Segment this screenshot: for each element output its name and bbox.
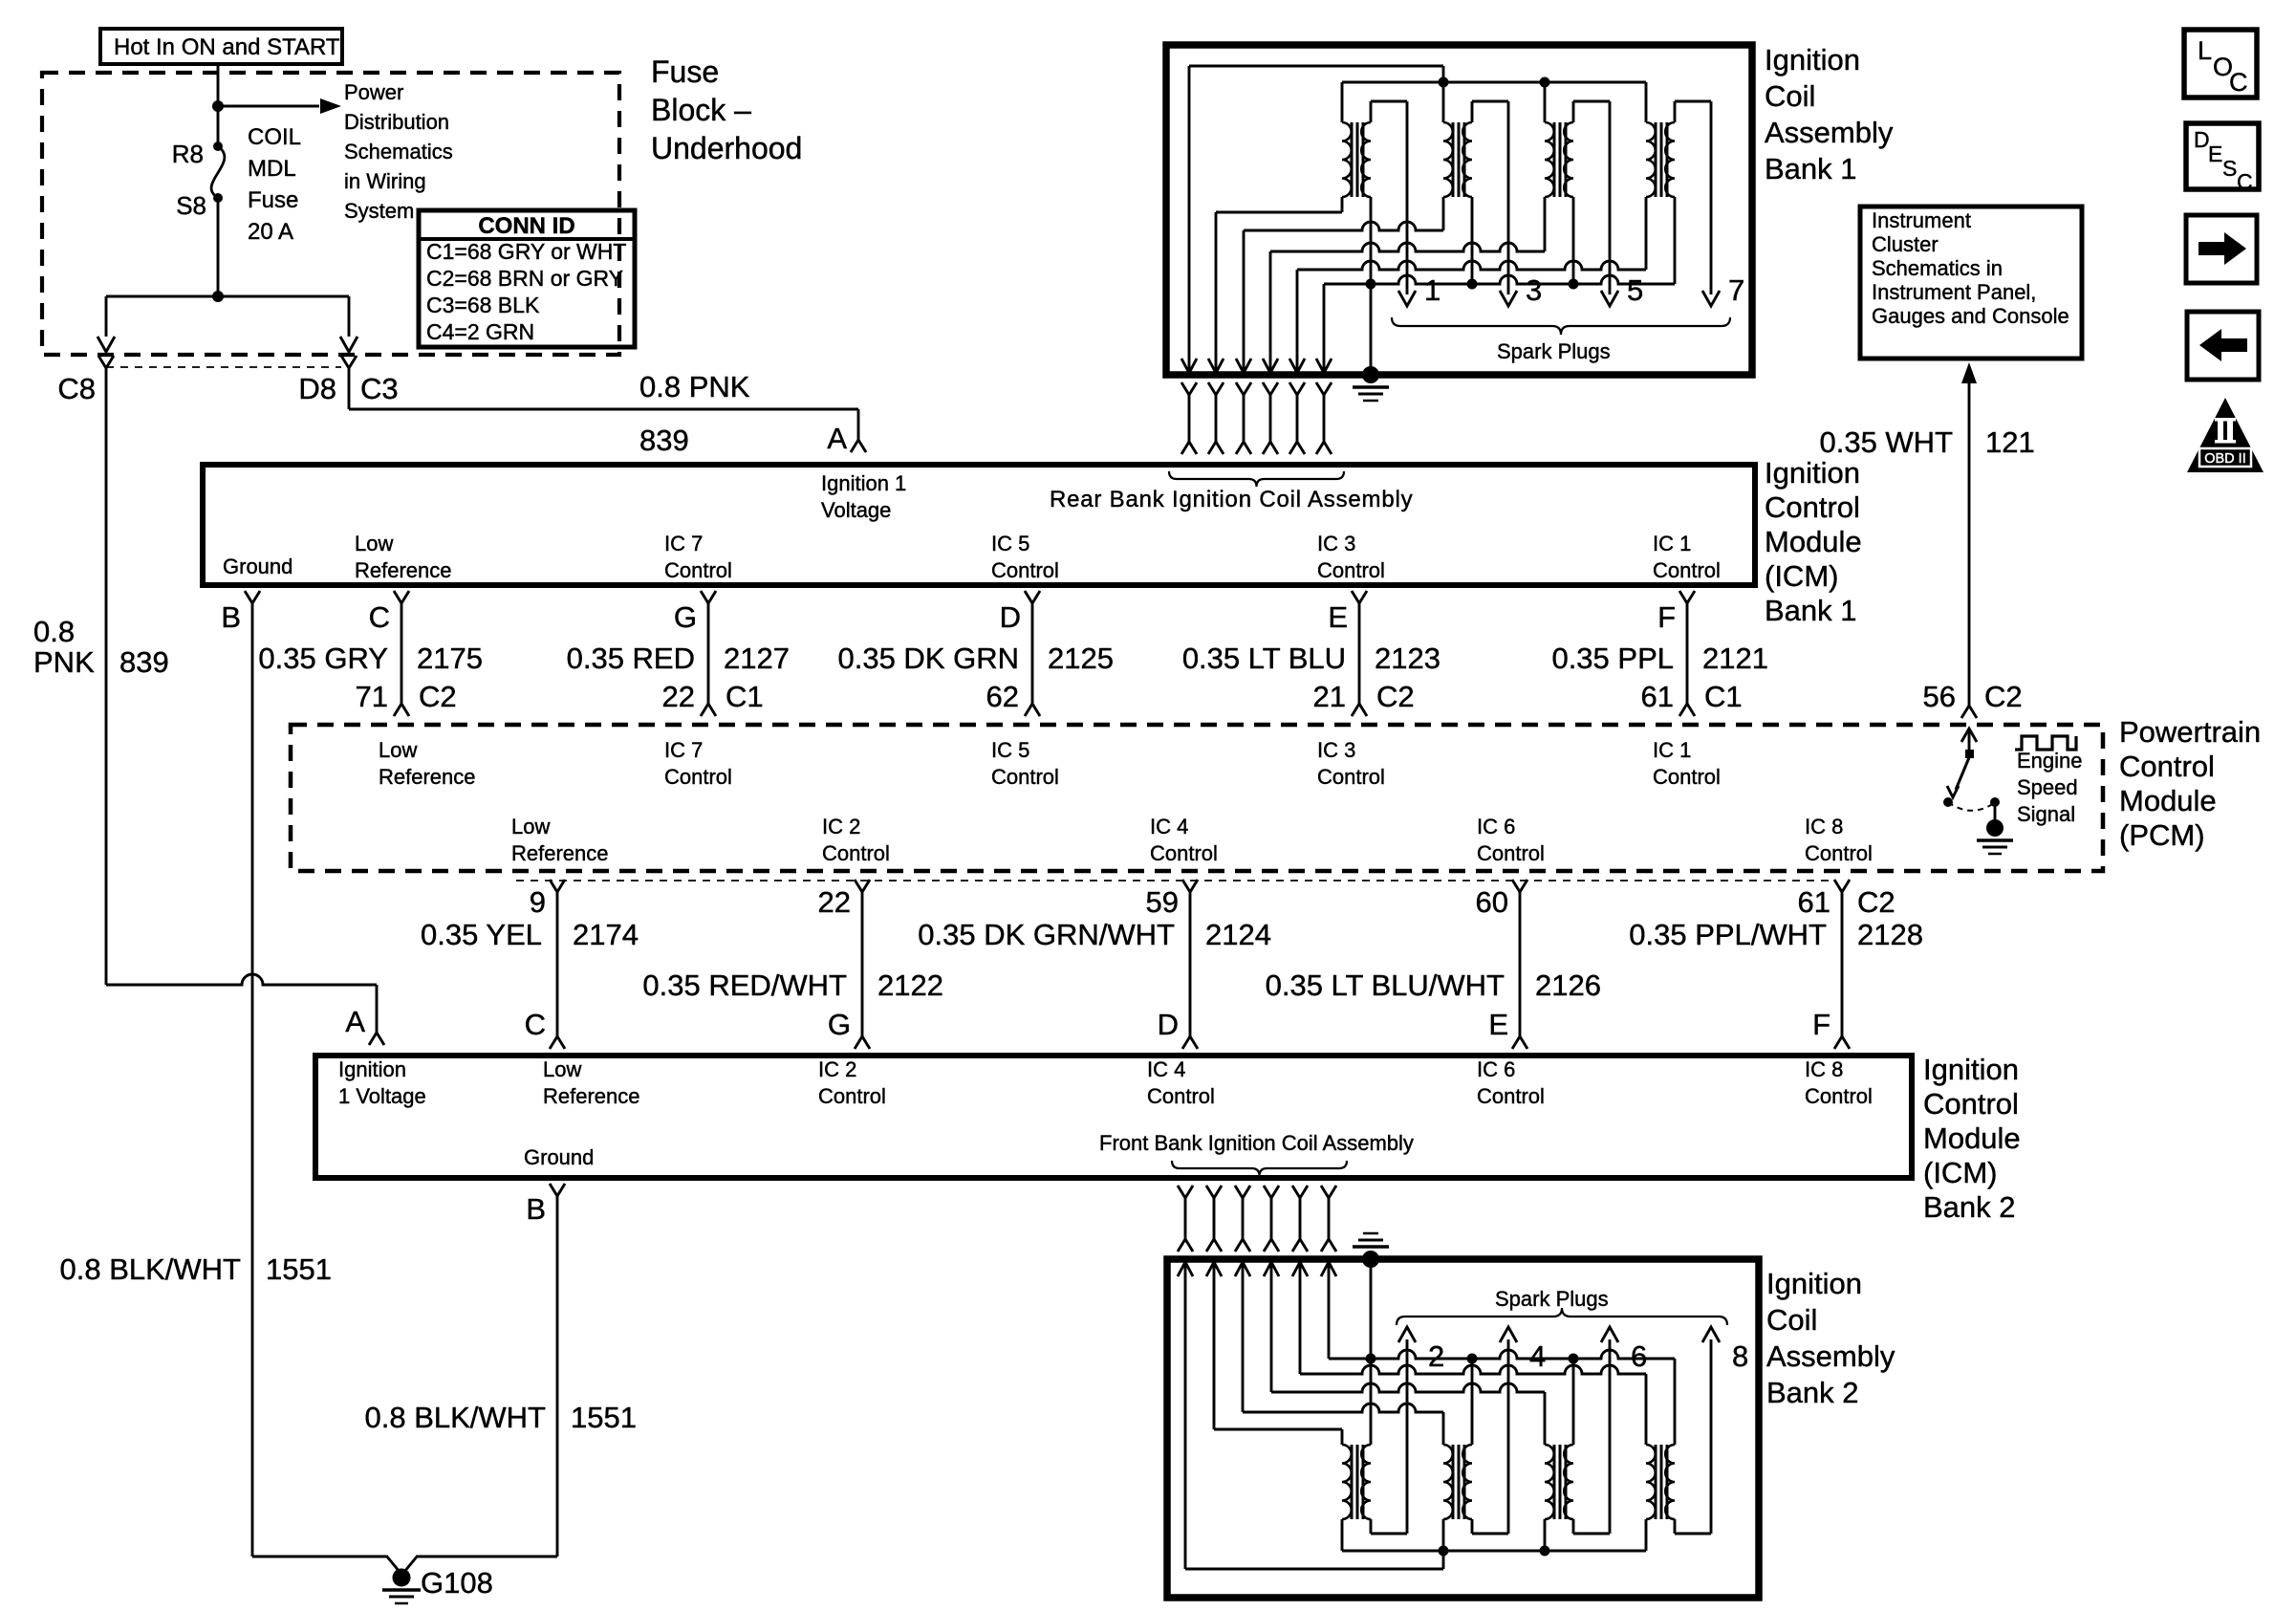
ignition coil T5 bank2 core: [1351, 1445, 1354, 1519]
svg-text:PNK: PNK: [33, 645, 95, 679]
ignition control module ICM bank1 box: [203, 465, 1755, 585]
svg-text:C8: C8: [57, 372, 96, 405]
svg-text:2126: 2126: [1535, 969, 1601, 1002]
svg-text:Control: Control: [1805, 1084, 1873, 1108]
connector PCM bottom pin 61: [1834, 880, 1850, 892]
spark plug 3 arrow: [1500, 291, 1517, 306]
ignition control module ICM bank2 box: [315, 1056, 1912, 1178]
connector 56 C2 (PCM): [1961, 706, 1977, 718]
svg-text:IC 5: IC 5: [991, 738, 1029, 762]
svg-text:Control: Control: [1317, 765, 1385, 789]
svg-text:D8: D8: [298, 372, 336, 405]
svg-text:IC 7: IC 7: [664, 532, 703, 555]
ground above bank2 box: [1362, 1251, 1379, 1268]
svg-text:1: 1: [1424, 273, 1440, 307]
svg-text:Bank 1: Bank 1: [1765, 152, 1857, 185]
svg-text:E: E: [1488, 1008, 1508, 1041]
wire secondary bottom drop: [1572, 197, 1575, 284]
svg-text:COIL: COIL: [248, 124, 301, 150]
svg-text:5: 5: [1627, 273, 1643, 307]
svg-text:0.8 BLK/WHT: 0.8 BLK/WHT: [365, 1401, 547, 1434]
svg-text:Control: Control: [1317, 558, 1385, 582]
connector pin B ICM bank1 bottom: [245, 591, 260, 603]
ignition coil T5 bank2 primary winding: [1342, 1445, 1352, 1519]
svg-text:Fuse: Fuse: [651, 54, 719, 89]
svg-text:B: B: [221, 600, 241, 634]
svg-text:0.35 LT BLU: 0.35 LT BLU: [1182, 642, 1346, 675]
svg-text:F: F: [1657, 600, 1676, 634]
svg-text:7: 7: [1728, 273, 1744, 307]
svg-text:1 Voltage: 1 Voltage: [338, 1084, 426, 1108]
connector C8 (fuse block): [98, 356, 114, 368]
svg-text:Fuse: Fuse: [248, 187, 298, 213]
svg-text:Reference: Reference: [511, 841, 609, 865]
instrument cluster schematics box: [1860, 207, 2082, 359]
connector front bank coil wire 1: [1178, 1186, 1193, 1198]
wire spark output 4 loop: [1471, 1519, 1474, 1534]
svg-text:S: S: [2222, 156, 2237, 181]
svg-text:0.35 DK GRN: 0.35 DK GRN: [837, 642, 1019, 675]
svg-text:C1=68 GRY or WHT: C1=68 GRY or WHT: [426, 239, 626, 264]
svg-text:Ground: Ground: [223, 555, 292, 578]
wire IC control feed T6 bank2: [1242, 1264, 1245, 1412]
connector pin B ICM bank2: [550, 1184, 565, 1196]
connector pin G ICM bank1 bottom: [701, 591, 716, 603]
powertrain control module PCM box (dashed): [291, 725, 2103, 871]
svg-text:Ground: Ground: [524, 1145, 594, 1169]
svg-text:C4=2 GRN: C4=2 GRN: [426, 319, 534, 344]
svg-text:F: F: [1812, 1008, 1830, 1041]
connector rear bank coil wire 6: [1316, 382, 1332, 395]
svg-text:Ignition: Ignition: [1766, 1267, 1862, 1300]
svg-text:A: A: [827, 422, 847, 455]
wire 0.35 PPL/WHT 2128 to ICM bank2: [1841, 892, 1844, 1036]
node engine speed source: [1990, 797, 2000, 807]
wire 0.35 PPL 2121: [1686, 603, 1689, 704]
svg-text:OBD II: OBD II: [2204, 451, 2246, 467]
fuse COIL MDL 20A (element): [213, 142, 223, 151]
svg-text:Instrument: Instrument: [1872, 208, 1971, 232]
connector PCM bottom pin 22: [855, 880, 870, 892]
arrow into coil box bank2 wire 5: [1292, 1262, 1308, 1276]
square wave symbol: [2015, 736, 2076, 750]
ignition coil T5 bank2 secondary winding: [1361, 1445, 1371, 1519]
wire primary bottom stub bank2: [1341, 1519, 1344, 1551]
connector pcm top pin 21: [1352, 704, 1367, 716]
wire secondary top rise bank2: [1572, 1359, 1575, 1445]
svg-text:Powertrain: Powertrain: [2119, 715, 2261, 749]
wire feed from wire1 bank1: [1188, 66, 1191, 373]
ground G108: [393, 1569, 411, 1587]
arrow into coil box bank2 wire 4: [1264, 1262, 1279, 1276]
svg-text:IC 1: IC 1: [1653, 738, 1691, 762]
svg-text:Low: Low: [511, 815, 550, 838]
brace front bank coil assembly: [1172, 1161, 1347, 1176]
svg-text:IC 2: IC 2: [822, 815, 860, 838]
svg-text:Control: Control: [664, 558, 732, 582]
svg-text:Reference: Reference: [543, 1084, 640, 1108]
connector boundary thin dashed (PCM bottom): [516, 880, 1832, 882]
arrow control wire feed1: [1181, 359, 1197, 373]
connector pin A ICM bank2: [369, 1033, 384, 1045]
connector D8 (fuse block): [341, 356, 357, 368]
svg-text:Control: Control: [991, 558, 1059, 582]
wire 0.35 LT BLU/WHT 2126 to ICM bank2: [1519, 892, 1522, 1036]
svg-text:61: 61: [1798, 885, 1830, 919]
wire 0.35 DK GRN 2125: [1031, 603, 1034, 704]
ignition coil T1 bank1 core: [1351, 122, 1354, 197]
svg-text:Cluster: Cluster: [1872, 232, 1939, 256]
svg-text:2123: 2123: [1375, 642, 1440, 675]
connector ICM bank2 pin G: [855, 1036, 870, 1049]
icon LOC box: [2184, 30, 2257, 98]
svg-text:21: 21: [1313, 680, 1346, 713]
svg-text:D: D: [1000, 600, 1021, 634]
svg-text:839: 839: [119, 645, 169, 679]
wire IC control feed T7 bank2: [1270, 1264, 1273, 1392]
wire 0.35 RED/WHT 2122 to ICM bank2: [861, 892, 864, 1036]
wire secondary bottom drop: [1471, 197, 1474, 284]
svg-text:IC 3: IC 3: [1317, 738, 1355, 762]
svg-text:Control: Control: [1653, 765, 1721, 789]
wire arrow to power distribution schematics: [218, 105, 319, 108]
svg-text:22: 22: [818, 885, 851, 919]
svg-text:0.35 DK GRN/WHT: 0.35 DK GRN/WHT: [918, 918, 1175, 951]
wire branch right to D8: [218, 295, 349, 298]
svg-text:(ICM): (ICM): [1765, 559, 1838, 593]
svg-text:0.35 RED: 0.35 RED: [567, 642, 695, 675]
svg-text:Bank 1: Bank 1: [1765, 594, 1857, 627]
connector pcm top pin 62: [1025, 704, 1040, 716]
svg-text:C2: C2: [1857, 885, 1895, 919]
wire fuse output down: [217, 198, 220, 296]
svg-text:1551: 1551: [266, 1252, 332, 1286]
node Hot-In-ON-and-START feed box: [100, 29, 342, 64]
svg-text:G: G: [828, 1008, 851, 1041]
svg-text:S8: S8: [176, 191, 206, 220]
wire IC control feed T1 bank1: [1215, 212, 1218, 373]
svg-text:Control: Control: [1923, 1087, 2019, 1121]
svg-text:C2: C2: [1376, 680, 1415, 713]
wire spark output 2 loop: [1370, 1519, 1373, 1534]
svg-text:IC 5: IC 5: [991, 532, 1029, 555]
svg-text:Assembly: Assembly: [1766, 1339, 1895, 1373]
svg-text:C2=68 BRN or GRY: C2=68 BRN or GRY: [426, 266, 623, 291]
svg-text:71: 71: [356, 680, 388, 713]
ignition coil T7 bank2 secondary winding: [1564, 1445, 1573, 1519]
svg-text:Bank 2: Bank 2: [1923, 1190, 2016, 1224]
svg-text:Instrument Panel,: Instrument Panel,: [1872, 280, 2036, 304]
connector front bank coil wire 2: [1206, 1186, 1222, 1198]
wire IC control feed T4 bank1: [1296, 270, 1299, 373]
ignition coil T2 bank1 core: [1452, 122, 1455, 197]
wire right ground run to G108: [417, 1556, 557, 1558]
wire 0.35 WHT 121 to instrument cluster: [1961, 362, 1977, 383]
svg-text:Ignition: Ignition: [1765, 43, 1860, 76]
icon OBD II triangle: [2187, 398, 2264, 472]
svg-text:59: 59: [1146, 885, 1179, 919]
connector pin A ICM bank1: [851, 440, 866, 452]
svg-text:Reference: Reference: [379, 765, 476, 789]
svg-text:0.35 WHT: 0.35 WHT: [1819, 425, 1953, 459]
connector rear bank coil wire 2: [1208, 382, 1224, 395]
ignition coil T8 bank2 secondary winding: [1665, 1445, 1675, 1519]
ignition coil assembly bank1 box: [1166, 45, 1752, 375]
svg-text:C: C: [2237, 169, 2253, 194]
engine speed signal arrow (PCM internal): [1961, 729, 1977, 742]
svg-text:9: 9: [530, 885, 546, 919]
wire 0.8 PNK 839 from C8 down left side: [105, 390, 108, 985]
svg-text:Ignition 1: Ignition 1: [821, 471, 906, 495]
svg-text:2124: 2124: [1205, 918, 1271, 951]
wire secondary bottom drop: [1370, 197, 1373, 284]
svg-text:Control: Control: [1477, 1084, 1545, 1108]
svg-text:A: A: [345, 1005, 365, 1038]
svg-text:IC 6: IC 6: [1477, 1057, 1515, 1081]
svg-text:2127: 2127: [724, 642, 790, 675]
svg-text:Gauges and Console: Gauges and Console: [1872, 304, 2069, 328]
svg-text:Control: Control: [1805, 841, 1873, 865]
svg-text:1551: 1551: [571, 1401, 637, 1434]
switch arm arrow: [1956, 755, 1970, 790]
wire junction to fuse: [217, 106, 220, 146]
svg-text:(PCM): (PCM): [2119, 818, 2205, 852]
svg-text:4: 4: [1529, 1339, 1546, 1373]
connector PCM bottom pin 60: [1512, 880, 1527, 892]
wire branch left to C8: [106, 295, 218, 298]
wire spark output 1 loop: [1370, 101, 1373, 122]
svg-text:C1: C1: [1704, 680, 1743, 713]
svg-text:Underhood: Underhood: [651, 131, 802, 165]
connector pin E ICM bank1 bottom: [1352, 591, 1367, 603]
svg-text:Rear Bank Ignition Coil Assem: Rear Bank Ignition Coil Assembly: [1050, 487, 1413, 512]
ignition coil T3 bank1 secondary winding: [1564, 122, 1573, 197]
connector rear bank coil wire 4: [1263, 382, 1278, 395]
svg-text:2174: 2174: [573, 918, 639, 951]
svg-text:IC 3: IC 3: [1317, 532, 1355, 555]
wire 0.35 GRY 2175: [401, 603, 403, 704]
brace spark plugs bank2: [1397, 1308, 1727, 1325]
svg-text:D: D: [1158, 1008, 1179, 1041]
wire primary bottom stub bank2: [1645, 1519, 1648, 1551]
svg-text:6: 6: [1631, 1339, 1647, 1373]
svg-text:Control: Control: [1147, 1084, 1215, 1108]
wire to internal ground: [1994, 802, 1997, 820]
svg-text:R8: R8: [172, 140, 204, 168]
wire 0.35 LT BLU 2123: [1358, 603, 1361, 704]
svg-text:IC 2: IC 2: [818, 1057, 856, 1081]
ignition coil assembly bank2 box: [1167, 1259, 1759, 1598]
svg-text:Coil: Coil: [1766, 1303, 1817, 1337]
arrow control wire 2: [1236, 359, 1251, 373]
wire B+ rail bank2: [1342, 1550, 1646, 1553]
ignition coil T2 bank1 secondary winding: [1462, 122, 1472, 197]
icon DESC box: [2186, 123, 2259, 189]
svg-text:C2: C2: [1984, 680, 2023, 713]
wire from hot feed to fuse: [217, 64, 220, 107]
svg-text:C: C: [525, 1008, 546, 1041]
wire 0.8 BLK/WHT 1551 right: [556, 1196, 559, 1557]
wire 0.8 PNK 839 from D8 to ICM bank1 pin A: [348, 390, 351, 409]
wire 0.35 DK GRN/WHT 2124 to ICM bank2: [1189, 892, 1192, 1036]
ignition coil T4 bank1 secondary winding: [1665, 122, 1675, 197]
arrow control wire 3: [1263, 359, 1278, 373]
wire left ground run to G108: [252, 1556, 386, 1558]
wire spark output 6 loop: [1572, 1519, 1575, 1534]
svg-text:C: C: [2229, 68, 2248, 97]
svg-text:Ignition: Ignition: [1923, 1053, 2019, 1086]
connector boundary (thin dashed): [106, 366, 341, 368]
svg-text:0.35 YEL: 0.35 YEL: [421, 918, 542, 951]
wire ground drop bank1: [1370, 284, 1373, 373]
wire spark output 5 loop: [1572, 101, 1575, 122]
svg-text:Spark Plugs: Spark Plugs: [1495, 1287, 1609, 1311]
spark plug 7 arrow: [1702, 291, 1720, 306]
connector front bank coil wire 5: [1292, 1186, 1308, 1198]
ignition coil T1 bank1 secondary winding: [1361, 122, 1371, 197]
svg-text:Control: Control: [2119, 750, 2215, 783]
connector pcm top pin 22: [701, 704, 716, 716]
svg-text:Control: Control: [991, 765, 1059, 789]
svg-text:Low: Low: [543, 1057, 581, 1081]
svg-text:Block –: Block –: [651, 93, 751, 127]
connector PCM bottom pin 59: [1182, 880, 1198, 892]
switch contact square: [1965, 750, 1974, 758]
svg-text:Module: Module: [2119, 784, 2217, 817]
ground symbol (PCM internal): [1986, 819, 2004, 837]
connector pin C ICM bank1 bottom: [394, 591, 409, 603]
ignition coil T3 bank1 core: [1553, 122, 1556, 197]
svg-text:0.35 LT BLU/WHT: 0.35 LT BLU/WHT: [1266, 969, 1505, 1002]
svg-text:L: L: [2198, 36, 2212, 65]
svg-text:Power: Power: [344, 80, 403, 104]
wire feed from wire1 bank2: [1184, 1264, 1187, 1569]
wire ground drop bank2: [1370, 1259, 1373, 1359]
spark plug 2 arrow: [1398, 1327, 1416, 1342]
spark plug 8 arrow: [1702, 1327, 1720, 1342]
svg-text:IC 4: IC 4: [1150, 815, 1188, 838]
svg-text:B: B: [526, 1192, 546, 1226]
svg-text:IC 7: IC 7: [664, 738, 703, 762]
brace rear bank coil assembly: [1169, 471, 1344, 487]
svg-text:IC 1: IC 1: [1653, 532, 1691, 555]
ground bank1 (coil box): [1362, 366, 1379, 383]
svg-text:Control: Control: [1653, 558, 1721, 582]
svg-text:IC 6: IC 6: [1477, 815, 1515, 838]
svg-text:121: 121: [1985, 425, 2035, 459]
svg-text:3: 3: [1526, 273, 1542, 307]
ignition coil T6 bank2 secondary winding: [1462, 1445, 1472, 1519]
svg-text:C3: C3: [360, 372, 399, 405]
svg-text:Control: Control: [1477, 841, 1545, 865]
svg-text:IC 4: IC 4: [1147, 1057, 1185, 1081]
connector front bank coil wire 3: [1235, 1186, 1250, 1198]
connector pcm top pin 71: [394, 704, 409, 716]
wire primary bottom stub bank2: [1544, 1519, 1547, 1551]
svg-text:0.35 PPL: 0.35 PPL: [1551, 642, 1674, 675]
svg-text:C: C: [369, 600, 390, 634]
svg-text:2121: 2121: [1702, 642, 1768, 675]
svg-text:22: 22: [662, 680, 695, 713]
dashed switch arc: [1948, 802, 1994, 811]
svg-text:20 A: 20 A: [248, 219, 293, 245]
spark plug 1 arrow: [1398, 291, 1416, 306]
ignition coil T6 bank2 core: [1452, 1445, 1455, 1519]
connector PCM bottom pin 9: [550, 880, 565, 892]
connector rear bank coil wire 3: [1236, 382, 1251, 395]
svg-text:IC 8: IC 8: [1805, 1057, 1843, 1081]
svg-text:(ICM): (ICM): [1923, 1156, 1997, 1189]
icon forward arrow box: [2186, 215, 2257, 283]
svg-text:Module: Module: [1923, 1121, 2021, 1155]
svg-text:Control: Control: [664, 765, 732, 789]
svg-text:0.35 GRY: 0.35 GRY: [258, 642, 388, 675]
svg-text:Reference: Reference: [355, 558, 452, 582]
svg-text:Low: Low: [355, 532, 393, 555]
svg-text:in Wiring: in Wiring: [344, 169, 426, 193]
svg-text:Ignition: Ignition: [1765, 456, 1860, 490]
svg-text:E: E: [2208, 142, 2222, 166]
svg-text:Spark Plugs: Spark Plugs: [1497, 339, 1611, 363]
svg-text:Speed: Speed: [2017, 775, 2078, 799]
wire spark output 3 loop: [1471, 101, 1474, 122]
svg-text:0.35 PPL/WHT: 0.35 PPL/WHT: [1629, 918, 1827, 951]
arrow control wire 1: [1208, 359, 1224, 373]
node rail junctions bank1: [1439, 77, 1449, 88]
svg-text:C1: C1: [726, 680, 764, 713]
connector ICM bank2 pin F: [1834, 1036, 1850, 1049]
wire IC control feed T3 bank1: [1269, 251, 1272, 373]
node bus junctions bank2: [1366, 1354, 1376, 1364]
wire primary top stub: [1341, 82, 1344, 122]
arrow low ref wire: [1316, 359, 1332, 373]
wire 0.35 RED 2127: [707, 603, 710, 704]
arrow control wire 4: [1289, 359, 1305, 373]
wire IC control feed T8 bank2: [1299, 1264, 1302, 1374]
svg-text:2122: 2122: [877, 969, 943, 1002]
svg-text:Schematics: Schematics: [344, 140, 453, 163]
connector pin D ICM bank1 bottom: [1025, 591, 1040, 603]
svg-text:839: 839: [639, 424, 689, 457]
wire down to bank2 pin A: [376, 985, 379, 1033]
arrow into coil box bank2 wire 1: [1178, 1262, 1193, 1276]
svg-text:Schematics in: Schematics in: [1872, 256, 2003, 280]
wire IC control feed T2 bank1: [1243, 230, 1245, 373]
ignition coil T2 bank1 primary winding: [1443, 122, 1453, 197]
connector rear bank coil wire 5: [1289, 382, 1305, 395]
wire primary top stub: [1645, 82, 1648, 122]
connector pcm top pin 61: [1679, 704, 1695, 716]
svg-text:Ignition: Ignition: [338, 1057, 406, 1081]
svg-text:60: 60: [1476, 885, 1508, 919]
ignition coil T7 bank2 core: [1553, 1445, 1556, 1519]
svg-text:Hot In ON and START: Hot In ON and START: [114, 34, 340, 60]
svg-text:Engine: Engine: [2017, 749, 2083, 773]
node fuse output branch: [212, 291, 224, 302]
svg-text:2125: 2125: [1048, 642, 1114, 675]
svg-text:Distribution: Distribution: [344, 110, 449, 134]
svg-text:Control: Control: [1150, 841, 1218, 865]
wire secondary top rise bank2: [1471, 1359, 1474, 1445]
svg-text:Coil: Coil: [1765, 79, 1815, 113]
svg-text:CONN ID: CONN ID: [478, 213, 574, 239]
switch node: [1943, 797, 1953, 807]
svg-text:Control: Control: [1765, 490, 1860, 524]
connector front bank coil wire 6: [1321, 1186, 1336, 1198]
svg-text:2: 2: [1428, 1339, 1444, 1373]
icon back arrow box: [2187, 312, 2259, 380]
svg-text:C3=68 BLK: C3=68 BLK: [426, 293, 540, 317]
